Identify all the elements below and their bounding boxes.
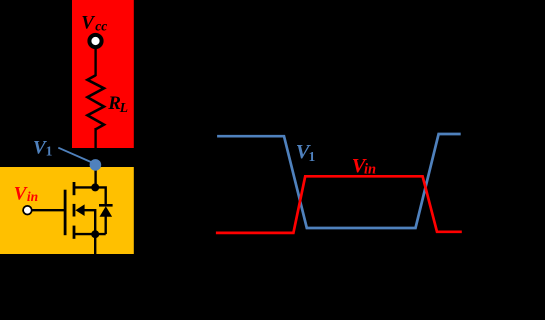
pull-up region (red box) (72, 0, 134, 148)
wire gate lead (32, 209, 67, 211)
transistor Q1 drain lead (74, 187, 106, 205)
diode D1 anode lead (104, 217, 106, 235)
node V1 dot (90, 159, 102, 171)
transistor Q1 source lead (74, 233, 106, 235)
svg-text:in: in (27, 189, 38, 204)
transistor Q1 channel segment bottom (73, 226, 76, 239)
wire resistor bottom to drain node (94, 128, 96, 188)
svg-text:1: 1 (46, 144, 53, 159)
diode D1 cathode bar (99, 204, 113, 207)
transistor Q1 channel segment middle (73, 204, 76, 217)
node V1 pointer line (58, 148, 95, 164)
waveform Vin trace (red) (216, 176, 462, 233)
wire Vcc terminal to resistor top (94, 47, 96, 76)
svg-text:V: V (81, 13, 95, 34)
diode D1 triangle (100, 206, 113, 217)
waveform V1 trace (blue) (217, 134, 461, 228)
junction drain dot (91, 183, 99, 191)
transistor Q1 body wire to source (84, 210, 95, 234)
terminal Vcc (89, 35, 101, 47)
svg-text:V: V (14, 184, 28, 205)
resistor R_L (87, 75, 104, 129)
transistor Q1 gate bar (64, 190, 67, 236)
junction source dot (91, 230, 99, 238)
svg-text:L: L (119, 100, 128, 115)
svg-text:cc: cc (95, 18, 107, 33)
svg-text:in: in (364, 161, 376, 177)
transistor Q1 channel segment top (73, 182, 76, 195)
terminal Vin (23, 206, 32, 215)
pull-down region (yellow box) (0, 167, 134, 254)
transistor Q1 body arrow (75, 204, 84, 216)
svg-text:1: 1 (309, 149, 316, 164)
wire source to ground (94, 234, 96, 262)
